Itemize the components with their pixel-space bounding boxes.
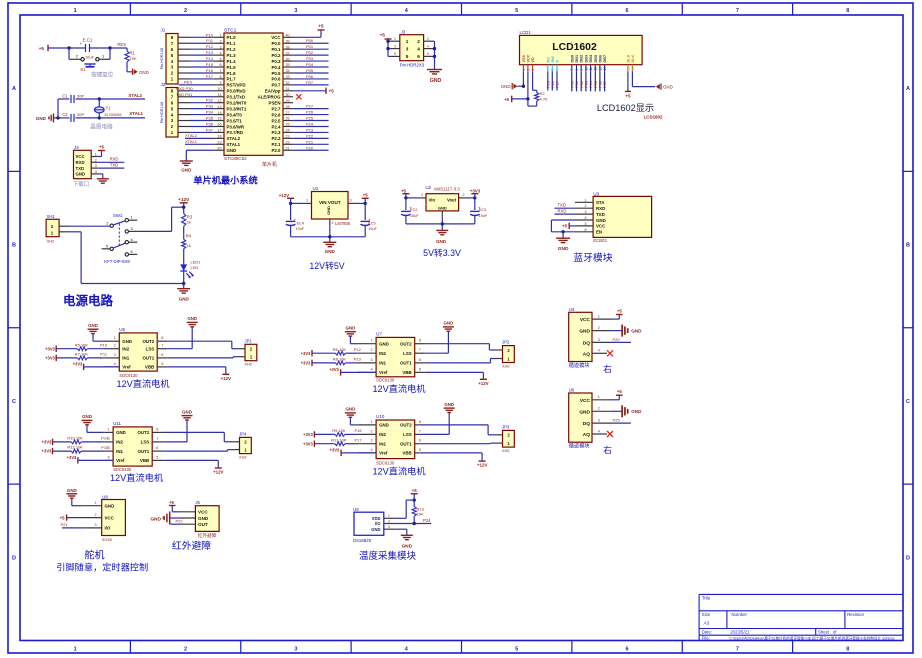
- svg-text:单片机最小系统: 单片机最小系统: [193, 175, 257, 186]
- svg-text:VBB: VBB: [402, 370, 411, 375]
- wire net P22 to IR OUT: [171, 518, 184, 524]
- wire net P21 to U8 I/O: [61, 522, 84, 528]
- svg-text:GND: GND: [501, 84, 511, 89]
- svg-text:E.C1: E.C1: [83, 38, 93, 43]
- svg-text:R12 10K: R12 10K: [67, 445, 83, 450]
- svg-text:1: 1: [107, 427, 109, 431]
- svg-text:P1.2: P1.2: [227, 47, 237, 52]
- svg-text:P0.7: P0.7: [271, 83, 281, 88]
- svg-text:J5: J5: [195, 500, 200, 505]
- svg-text:TXD: TXD: [558, 203, 566, 208]
- svg-text:P24: P24: [306, 121, 314, 126]
- svg-text:1: 1: [394, 37, 396, 41]
- label LCD1602 small: [644, 114, 663, 119]
- svg-text:+5: +5: [401, 188, 407, 193]
- svg-text:GND: GND: [36, 116, 47, 121]
- regulator U1 LM7805: [305, 186, 354, 226]
- svg-text:6: 6: [626, 647, 629, 653]
- svg-text:3: 3: [94, 523, 96, 527]
- svg-text:+12V: +12V: [213, 470, 223, 475]
- svg-text:R6 10K: R6 10K: [333, 347, 347, 352]
- svg-text:P25: P25: [546, 81, 550, 88]
- svg-text:+5: +5: [169, 500, 175, 505]
- svg-text:VCC: VCC: [580, 317, 591, 323]
- svg-text:1: 1: [388, 514, 390, 518]
- caption key reset: [91, 71, 114, 79]
- svg-text:DB7: DB7: [603, 55, 607, 63]
- svg-text:P3.5/T1: P3.5/T1: [227, 118, 243, 123]
- svg-text:24: 24: [286, 129, 290, 133]
- svg-text:DS18B20: DS18B20: [353, 538, 372, 543]
- svg-text:D: D: [906, 555, 910, 561]
- wire LCD BLA to +5: [625, 71, 631, 98]
- ground port at U6 GND: [612, 405, 642, 417]
- resistor R12 10K to U11 input: [42, 445, 109, 455]
- svg-text:DB4: DB4: [589, 54, 593, 62]
- svg-text:2: 2: [184, 647, 187, 653]
- svg-text:2: 2: [370, 348, 372, 352]
- svg-text:电源电路: 电源电路: [63, 293, 114, 308]
- svg-text:+3V3: +3V3: [330, 448, 340, 453]
- svg-text:P04: P04: [589, 81, 593, 88]
- svg-text:Vref: Vref: [116, 458, 125, 463]
- svg-text:OUT2: OUT2: [142, 339, 154, 344]
- svg-text:2: 2: [598, 326, 600, 330]
- ground port at IR module: [150, 512, 179, 525]
- capacitor EC5 10uF: [360, 203, 377, 236]
- svg-text:12V直流电机: 12V直流电机: [116, 378, 169, 389]
- svg-text:P0.2: P0.2: [271, 53, 281, 58]
- svg-text:P0.4: P0.4: [271, 65, 281, 70]
- svg-text:下载口: 下载口: [73, 180, 89, 188]
- wire LCD VSS to ground: [517, 71, 525, 88]
- svg-text:+5: +5: [99, 144, 105, 149]
- wire switch pin3 to +12V node: [137, 207, 184, 231]
- svg-text:XH2: XH2: [239, 455, 247, 460]
- svg-text:4: 4: [417, 46, 420, 51]
- svg-text:PSEN: PSEN: [269, 100, 281, 105]
- resistor R8 10K to U7 input: [301, 357, 362, 367]
- power +5 at U2 input: [401, 188, 420, 199]
- power +3V3 at U10 Vref: [330, 448, 376, 457]
- svg-text:Sheet of: Sheet of: [818, 630, 837, 635]
- svg-text:2023/5/21: 2023/5/21: [730, 630, 750, 635]
- svg-text:R1: R1: [130, 51, 136, 56]
- svg-text:5: 5: [419, 448, 421, 452]
- svg-text:DB3: DB3: [584, 55, 588, 63]
- svg-text:B: B: [906, 243, 910, 249]
- svg-text:6: 6: [626, 8, 629, 14]
- ground at U9: [395, 529, 413, 549]
- svg-text:1k: 1k: [187, 243, 191, 248]
- svg-text:11: 11: [589, 67, 593, 71]
- svg-text:2: 2: [526, 69, 530, 71]
- svg-text:4.7K: 4.7K: [540, 97, 549, 102]
- svg-text:P06: P06: [599, 81, 603, 88]
- svg-text:12V直流电机: 12V直流电机: [372, 466, 425, 477]
- svg-text:+5: +5: [39, 46, 45, 51]
- svg-text:15: 15: [626, 67, 630, 71]
- svg-text:P21: P21: [306, 139, 314, 144]
- svg-text:U8: U8: [102, 494, 108, 499]
- svg-text:XTAL2: XTAL2: [128, 93, 142, 98]
- power +12V at U5 VBB: [167, 367, 231, 381]
- svg-text:VCC: VCC: [580, 398, 591, 404]
- svg-text:2: 2: [114, 344, 116, 348]
- svg-text:P36: P36: [206, 121, 214, 126]
- resistor R7 10K to U5 input: [45, 352, 108, 362]
- svg-text:+3V3: +3V3: [329, 367, 339, 372]
- svg-text:P1.5: P1.5: [227, 65, 237, 70]
- svg-text:+3V3: +3V3: [73, 362, 83, 367]
- svg-text:GND: GND: [326, 206, 331, 215]
- svg-text:引脚随意，定时器控制: 引脚随意，定时器控制: [56, 562, 148, 573]
- svg-text:RXD: RXD: [76, 160, 85, 165]
- svg-text:SG90: SG90: [102, 537, 113, 542]
- power +5 at J3: [380, 33, 392, 57]
- svg-text:10uF: 10uF: [410, 214, 419, 218]
- svg-text:P20: P20: [306, 145, 314, 150]
- svg-text:GND: GND: [558, 246, 569, 252]
- wires U1 port P2 with net labels P27-P20: [293, 104, 329, 151]
- svg-text:晶振电路: 晶振电路: [90, 123, 113, 131]
- svg-text:12: 12: [594, 67, 598, 71]
- svg-text:SW1: SW1: [113, 213, 123, 218]
- svg-text:XH2: XH2: [502, 364, 510, 369]
- capacitor EC3 10uF: [470, 198, 488, 224]
- svg-text:7: 7: [419, 348, 421, 352]
- svg-text:10: 10: [584, 67, 588, 71]
- svg-text:DB6: DB6: [598, 55, 602, 63]
- ground port left of LCD: [501, 83, 518, 89]
- ground at U7 pin 1: [345, 326, 358, 344]
- svg-text:27: 27: [286, 111, 290, 115]
- svg-text:蓝牙模块: 蓝牙模块: [573, 252, 612, 264]
- svg-text:GND: GND: [346, 326, 356, 331]
- svg-text:20: 20: [217, 146, 221, 150]
- svg-text:Vref: Vref: [379, 451, 388, 456]
- svg-text:10uF: 10uF: [368, 227, 377, 231]
- power +12V at U7 VBB: [425, 372, 489, 386]
- svg-text:12V直流电机: 12V直流电机: [110, 472, 163, 483]
- svg-text:Title: Title: [702, 596, 711, 601]
- svg-text:SDC9130: SDC9130: [113, 467, 132, 472]
- svg-text:6: 6: [555, 69, 559, 71]
- wire U7 OUT1 to JP2 pin 1: [425, 359, 496, 363]
- svg-text:A3: A3: [704, 621, 710, 627]
- svg-text:GND: GND: [438, 206, 447, 211]
- wires U1 port P0 with net labels P00-P07: [293, 38, 329, 85]
- svg-text:XH2: XH2: [245, 362, 253, 367]
- svg-text:Date:: Date:: [702, 630, 712, 635]
- svg-text:4: 4: [598, 429, 600, 433]
- svg-text:P2.7: P2.7: [271, 106, 281, 111]
- svg-text:RXD P30: RXD P30: [176, 86, 193, 91]
- svg-text:DQ: DQ: [583, 340, 590, 346]
- svg-text:U4: U4: [569, 307, 575, 312]
- svg-text:TXD: TXD: [76, 166, 85, 171]
- svg-text:4: 4: [370, 448, 372, 452]
- svg-text:GND: GND: [122, 339, 132, 344]
- capacitor C1 30P: [62, 93, 84, 103]
- svg-text:RES: RES: [117, 42, 126, 47]
- svg-text:P3.3/INT1: P3.3/INT1: [227, 106, 247, 111]
- svg-text:8: 8: [419, 339, 421, 343]
- power +3V3 at U5 Vref: [73, 362, 120, 371]
- infrared module J5: [179, 500, 219, 539]
- svg-text:8: 8: [846, 8, 849, 14]
- svg-text:RXD: RXD: [596, 206, 605, 211]
- ground at U10 pin 7 LSS: [420, 402, 455, 435]
- svg-text:17: 17: [217, 129, 221, 133]
- svg-text:+3V3: +3V3: [470, 188, 481, 193]
- svg-text:P3.2/INT0: P3.2/INT0: [227, 100, 247, 105]
- power +5 at U3 VCC: [562, 223, 575, 229]
- svg-text:J4: J4: [74, 145, 79, 150]
- svg-text:P26: P26: [551, 81, 555, 88]
- svg-text:STC89C52: STC89C52: [224, 156, 247, 161]
- svg-text:10uF: 10uF: [296, 227, 305, 231]
- svg-text:IN2: IN2: [379, 432, 386, 437]
- ground at U3: [556, 232, 570, 252]
- svg-text:DB1: DB1: [575, 55, 579, 63]
- power +12V node: [178, 197, 190, 214]
- svg-text:P2.1: P2.1: [271, 142, 281, 147]
- wire U4 DQ net P20: [612, 337, 631, 343]
- svg-text:+5: +5: [60, 516, 66, 521]
- svg-text:RXD: RXD: [558, 209, 567, 214]
- svg-text:A: A: [906, 86, 910, 92]
- svg-text:+5: +5: [617, 308, 623, 313]
- wires LCD DB0-DB7 with net labels P00-P07: [570, 71, 607, 91]
- svg-text:OUT: OUT: [198, 522, 208, 527]
- connector J1 Pin HDR1X8: [160, 28, 190, 85]
- svg-text:1: 1: [306, 199, 308, 203]
- svg-text:P3.1/TxD: P3.1/TxD: [227, 95, 246, 100]
- svg-text:EC3: EC3: [479, 208, 486, 212]
- svg-text:P1.1: P1.1: [227, 41, 237, 46]
- svg-text:3: 3: [394, 44, 396, 48]
- svg-text:右: 右: [603, 363, 612, 374]
- svg-text:+3V3: +3V3: [45, 346, 55, 351]
- svg-text:GND: GND: [579, 329, 590, 335]
- caption 12V DC motor: [372, 466, 425, 477]
- svg-text:OUT2: OUT2: [400, 342, 412, 347]
- svg-text:8: 8: [419, 420, 421, 424]
- power +5 above R13: [411, 488, 418, 502]
- svg-text:GND: GND: [181, 168, 192, 173]
- svg-text:4: 4: [584, 216, 586, 220]
- svg-text:循迹模块: 循迹模块: [569, 361, 591, 369]
- svg-text:按键复位: 按键复位: [91, 71, 114, 79]
- svg-text:P00: P00: [306, 38, 314, 43]
- svg-text:5: 5: [515, 8, 518, 14]
- svg-text:8: 8: [219, 75, 221, 79]
- svg-text:7: 7: [156, 437, 158, 441]
- svg-text:P2.6: P2.6: [271, 112, 281, 117]
- svg-text:OUT1: OUT1: [142, 356, 154, 361]
- svg-text:P16: P16: [206, 68, 214, 73]
- svg-text:34: 34: [286, 69, 290, 73]
- svg-text:GND: GND: [596, 218, 606, 223]
- svg-text:P10: P10: [206, 32, 214, 37]
- svg-text:GND: GND: [198, 516, 209, 521]
- svg-text:K1: K1: [80, 67, 86, 72]
- svg-text:P21: P21: [61, 522, 69, 527]
- svg-text:5: 5: [551, 69, 555, 71]
- svg-text:6: 6: [219, 63, 221, 67]
- svg-text:10: 10: [217, 87, 221, 91]
- svg-text:P2.2: P2.2: [271, 136, 281, 141]
- svg-text:J1: J1: [161, 28, 166, 33]
- power +3V3 at U2 output: [465, 188, 481, 199]
- svg-text:GND: GND: [150, 516, 161, 522]
- svg-text:29: 29: [286, 99, 290, 103]
- svg-text:XTAL2: XTAL2: [227, 136, 241, 141]
- capacitor C2 30P: [62, 112, 84, 122]
- svg-text:LCD1: LCD1: [520, 30, 532, 35]
- svg-text:GND: GND: [579, 409, 590, 415]
- power +5 reset circuit: [39, 45, 69, 51]
- svg-text:P1.3: P1.3: [227, 53, 237, 58]
- wire net XTAL1 to pin 19: [185, 139, 214, 144]
- svg-text:2: 2: [94, 513, 96, 517]
- resistor R1 10K: [125, 48, 137, 69]
- svg-text:P23: P23: [306, 127, 314, 132]
- wire net TXD from J4: [98, 162, 125, 168]
- wire U5 OUT2 to JP1 pin 2: [167, 341, 238, 349]
- svg-text:P34: P34: [206, 110, 214, 115]
- svg-text:C2: C2: [62, 112, 68, 117]
- svg-text:AQ: AQ: [583, 351, 590, 357]
- svg-text:12V直流电机: 12V直流电机: [372, 383, 425, 394]
- svg-text:P05: P05: [306, 68, 314, 73]
- svg-text:3: 3: [421, 193, 423, 197]
- svg-text:P2.4: P2.4: [271, 124, 281, 129]
- svg-text:+3V3: +3V3: [42, 449, 52, 454]
- wire U11 OUT2 to JP4 pin 2: [165, 432, 233, 441]
- svg-text:P35: P35: [206, 116, 214, 121]
- svg-text:P16: P16: [354, 428, 362, 433]
- ground rail U2: [406, 217, 475, 244]
- svg-text:SDC9130: SDC9130: [376, 378, 395, 383]
- resistor R13 10K pullup: [412, 500, 425, 523]
- svg-text:U11: U11: [113, 421, 121, 426]
- wire net RXD to U3 TXD: [554, 209, 575, 215]
- svg-text:6: 6: [419, 358, 421, 362]
- servo module U8 SG90: [83, 494, 125, 542]
- svg-text:1: 1: [74, 8, 77, 14]
- svg-text:3: 3: [531, 69, 535, 71]
- svg-text:GND: GND: [67, 488, 77, 493]
- svg-text:3: 3: [294, 647, 297, 653]
- caption 12V DC motor: [372, 383, 425, 394]
- svg-text:VBB: VBB: [140, 458, 149, 463]
- svg-text:16: 16: [217, 123, 221, 127]
- svg-text:6: 6: [156, 446, 158, 450]
- svg-text:37: 37: [286, 51, 290, 55]
- svg-text:6: 6: [417, 54, 420, 59]
- svg-text:9: 9: [580, 69, 584, 71]
- svg-text:39: 39: [286, 39, 290, 43]
- power +5 left of LCD: [504, 96, 512, 102]
- svg-text:Pin HDR2X3: Pin HDR2X3: [400, 62, 425, 67]
- wire LED to XH1 pin1 return: [70, 232, 186, 285]
- svg-text:+5: +5: [412, 488, 418, 493]
- svg-text:4: 4: [114, 362, 116, 366]
- power +5 at U1 pin 31 EA/Vpp: [293, 88, 334, 94]
- svg-text:7: 7: [736, 647, 739, 653]
- svg-text:7: 7: [419, 429, 421, 433]
- svg-text:P11: P11: [100, 352, 108, 357]
- svg-text:A: A: [12, 86, 16, 92]
- svg-text:IN2: IN2: [116, 440, 123, 445]
- svg-text:30P: 30P: [77, 93, 84, 98]
- svg-text:红外避障: 红外避障: [172, 539, 211, 552]
- svg-text:+3V3: +3V3: [301, 351, 311, 356]
- svg-text:RST/VPD: RST/VPD: [227, 83, 246, 88]
- svg-text:1: 1: [95, 153, 97, 157]
- svg-text:1: 1: [406, 39, 409, 44]
- svg-text:4: 4: [219, 51, 221, 55]
- svg-text:STA: STA: [596, 200, 605, 205]
- svg-text:13: 13: [598, 67, 602, 71]
- svg-text:循迹模块: 循迹模块: [569, 442, 591, 450]
- wire U7 OUT2 to JP2 pin 2: [425, 344, 496, 350]
- svg-text:LCD1602显示: LCD1602显示: [597, 103, 654, 113]
- svg-text:Pin HDR1X8: Pin HDR1X8: [160, 102, 164, 124]
- svg-text:J2: J2: [161, 82, 166, 87]
- caption infrared obstacle avoidance: [172, 539, 211, 552]
- svg-text:11.0592M: 11.0592M: [104, 112, 122, 117]
- svg-text:12V转5V: 12V转5V: [309, 260, 344, 271]
- svg-text:P13: P13: [354, 357, 362, 362]
- wires J2 to U1 port P3 with net labels: [176, 86, 214, 133]
- svg-text:+12V: +12V: [221, 376, 231, 381]
- svg-text:1: 1: [370, 339, 372, 343]
- svg-text:3: 3: [95, 164, 97, 168]
- ground below R1: [127, 69, 149, 76]
- svg-text:P0.0: P0.0: [271, 41, 281, 46]
- svg-text:30P: 30P: [77, 112, 84, 117]
- svg-text:GND: GND: [187, 316, 197, 321]
- caption MCU minimal system: [193, 175, 257, 186]
- svg-text:Size: Size: [702, 612, 711, 617]
- svg-text:9: 9: [219, 81, 221, 85]
- svg-text:VCC: VCC: [76, 154, 85, 159]
- svg-text:LM7805: LM7805: [335, 221, 351, 226]
- svg-text:GND: GND: [82, 414, 92, 419]
- svg-text:OUT2: OUT2: [137, 430, 149, 435]
- svg-text:2: 2: [370, 429, 372, 433]
- connector J4 download port: [74, 145, 98, 179]
- caption temperature acquisition module: [359, 550, 417, 562]
- motor driver U11 SDC9130: [105, 421, 165, 472]
- svg-text:U7: U7: [376, 332, 382, 337]
- svg-text:OUT1: OUT1: [400, 361, 412, 366]
- svg-text:7: 7: [161, 344, 163, 348]
- wire U11 OUT1 to JP4 pin 1: [165, 450, 233, 452]
- svg-text:右: 右: [603, 444, 612, 455]
- LED LED1: [180, 260, 201, 284]
- svg-text:U2: U2: [425, 185, 431, 190]
- svg-text:B: B: [12, 243, 16, 249]
- svg-text:GND: GND: [139, 70, 149, 75]
- svg-text:+3V3: +3V3: [42, 440, 52, 445]
- wire net XTAL2 crystal side: [58, 93, 145, 118]
- svg-text:GND: GND: [379, 423, 389, 428]
- svg-text:P06: P06: [306, 74, 314, 79]
